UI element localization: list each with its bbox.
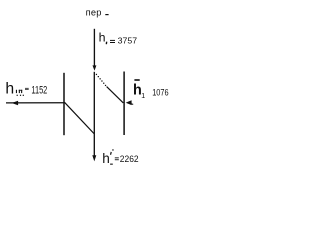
wire: central vertical line upper segment: [93, 29, 95, 66]
wire: central vertical line lower segment: [93, 72, 95, 156]
node: mid arrowhead pointing down: [93, 65, 97, 70]
svg-text:2262: 2262: [120, 154, 139, 164]
node: arrowhead pointing left on horizontal line: [12, 101, 19, 105]
wire: solid diagonal to right staff: [107, 87, 124, 103]
wire: lower diagonal from junction to central line: [65, 102, 95, 133]
label h-bar 1 1076: [134, 79, 139, 81]
wire: left staff vertical line: [63, 73, 65, 135]
svg-text:h: h: [99, 31, 106, 45]
svg-text:пер: пер: [86, 8, 102, 18]
wire: horizontal line with left arrow: [6, 102, 65, 104]
wire: dotted sight line: [96, 74, 106, 86]
svg-text:h: h: [102, 151, 110, 166]
dash after пер: [105, 14, 108, 15]
node: arrowhead pointing left at right staff: [126, 100, 132, 105]
svg-text:3757: 3757: [118, 37, 138, 46]
svg-text:h: h: [5, 80, 14, 97]
svg-text:1076: 1076: [152, 87, 169, 97]
wire: right staff vertical line: [123, 72, 125, 136]
node: bottom arrowhead pointing down: [92, 155, 96, 161]
tail of left-pointing arrowhead: [131, 103, 134, 106]
svg-text:1: 1: [141, 93, 145, 100]
svg-text:1152: 1152: [31, 84, 47, 96]
